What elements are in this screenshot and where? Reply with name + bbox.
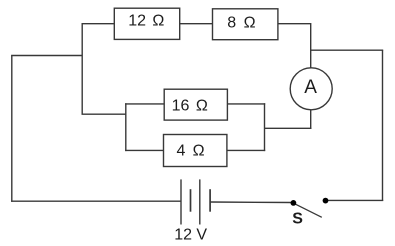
switch S right contact dot bbox=[323, 198, 329, 204]
switch S left contact dot bbox=[291, 200, 297, 206]
wire left rail vertical bbox=[11, 56, 13, 202]
battery B1 long plate 1 bbox=[180, 179, 182, 224]
resistor R4 box bbox=[164, 135, 227, 167]
svg-text:A: A bbox=[304, 77, 317, 98]
wire to resistor R1 bbox=[82, 23, 115, 25]
wire ammeter bottom stub bbox=[310, 110, 312, 129]
wire battery to switch bbox=[210, 201, 291, 204]
wire R3 left lead bbox=[125, 103, 164, 105]
wire R3 right lead bbox=[227, 103, 265, 105]
wire R4 left lead bbox=[125, 149, 163, 151]
wire ammeter to parallel group bbox=[265, 127, 312, 129]
resistor R2 box bbox=[213, 9, 278, 40]
wire right branch vertical down to ammeter bbox=[310, 23, 312, 68]
wire between R1 and R2 bbox=[180, 23, 213, 25]
battery B1 long plate 2 bbox=[199, 179, 201, 224]
ammeter U1 circle bbox=[290, 68, 332, 110]
svg-text:4 Ω: 4 Ω bbox=[177, 142, 205, 159]
svg-text:16 Ω: 16 Ω bbox=[172, 98, 208, 115]
battery B1 short plate 2 bbox=[209, 189, 211, 212]
wire right rail vertical bbox=[382, 50, 384, 201]
battery B1 short plate 1 bbox=[190, 189, 192, 212]
wire switch to bottom-right corner bbox=[328, 199, 384, 201]
wire junction to right rail bbox=[311, 49, 384, 51]
wire R2 to right branch bbox=[278, 23, 311, 25]
wire left parallel junction vertical bbox=[125, 103, 127, 151]
svg-text:12 V: 12 V bbox=[174, 227, 207, 244]
svg-text:8 Ω: 8 Ω bbox=[227, 15, 255, 32]
wire into parallel group bbox=[82, 113, 126, 115]
svg-text:S: S bbox=[292, 211, 303, 228]
resistor R1 box bbox=[114, 8, 179, 39]
switch S lever bbox=[295, 204, 322, 218]
resistor R3 box bbox=[164, 89, 227, 120]
wire bottom rail left bbox=[11, 200, 181, 202]
wire top-left horizontal to node junction bbox=[11, 55, 82, 57]
wire left branch vertical bbox=[81, 24, 83, 115]
wire R4 right lead bbox=[227, 149, 265, 151]
svg-text:12 Ω: 12 Ω bbox=[128, 13, 164, 30]
wire right parallel junction vertical bbox=[264, 103, 266, 151]
